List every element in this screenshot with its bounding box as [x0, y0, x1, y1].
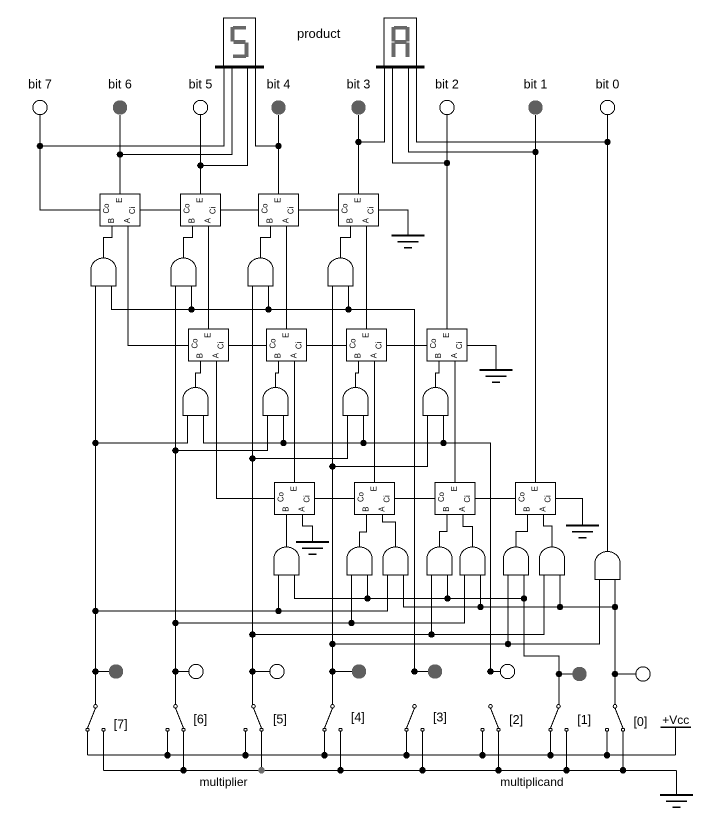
svg-text:multiplier: multiplier: [199, 775, 247, 789]
wire multiplier 5 stub: [253, 671, 270, 673]
ground GND3: [296, 541, 329, 543]
node ground rail junction x422.5: [419, 767, 426, 774]
svg-text:B: B: [195, 353, 204, 358]
svg-text:E: E: [362, 333, 371, 338]
wire G14 right input: [480, 575, 482, 607]
svg-text:bit 2: bit 2: [435, 77, 459, 91]
splitter bar for DIG1: [215, 65, 264, 68]
wire DIG2 bit0 leg: [417, 68, 608, 142]
wire ground rail to GND5: [676, 770, 678, 795]
svg-text:B: B: [361, 506, 370, 511]
svg-text:bit 5: bit 5: [189, 77, 213, 91]
wire MR6 bus to G14: [176, 575, 465, 623]
wire MR5 branch to G7: [253, 415, 348, 459]
splitter bar for DIG2: [376, 65, 425, 68]
node Vcc rail junction x607: [604, 752, 611, 759]
full adder U2 (row1): [181, 194, 221, 226]
node MC0-G15: [557, 604, 564, 611]
AND gate G14 (row3 A): [460, 547, 485, 575]
wire bit 7 stub: [39, 115, 41, 146]
svg-text:Ci: Ci: [366, 206, 375, 214]
AND gate G15 (row3 A): [540, 547, 565, 575]
wire DIG1 bit6 leg: [120, 68, 232, 154]
ground GND4: [566, 525, 599, 527]
switch [6]: [174, 705, 178, 709]
wire DIG1 bit5 leg: [201, 68, 248, 165]
wire FA2.Ci-FA3.Co: [221, 209, 259, 211]
input pin multiplier 4: [352, 664, 366, 678]
AND gate G4 (row1): [328, 258, 353, 286]
wire ground rail: [104, 769, 677, 771]
wire MR6 branch to G6: [176, 415, 268, 451]
wire FA1.Ci-FA2.Co: [140, 209, 181, 211]
wire G8 right input: [443, 415, 445, 443]
node MR4-G12: [505, 641, 512, 648]
node multiplicand 3 tap: [411, 668, 418, 675]
AND gate G6 (row2): [263, 388, 288, 416]
node Vcc rail junction x167.5: [164, 752, 171, 759]
wire bit3 to FA4 sum: [358, 142, 360, 194]
svg-text:[1]: [1]: [577, 713, 591, 727]
node MR4-bus: [329, 641, 336, 648]
output pin bit 3: [351, 100, 365, 114]
hex display DIG1 (high nibble, shows 5): [224, 18, 256, 67]
wire FA11.A from G14: [463, 515, 473, 548]
svg-text:Co: Co: [102, 203, 111, 214]
wire G16 right / MC0 to switch 0: [614, 580, 616, 705]
svg-text:B: B: [434, 353, 443, 358]
svg-text:A: A: [212, 352, 221, 358]
wire bit 5 stub: [200, 115, 202, 166]
wire FA3.Ci-FA4.Co: [299, 209, 339, 211]
svg-text:E: E: [531, 486, 540, 491]
wire G15 right input: [559, 575, 561, 607]
wire G13 right / net MC0 bus: [404, 575, 616, 607]
wire multiplicand 0 stub: [615, 673, 636, 675]
full adder U5 (row2): [189, 329, 229, 361]
node ground rail junction x340.5: [337, 767, 344, 774]
svg-text:E: E: [196, 198, 205, 203]
wire FA8.A from FA11 sum: [454, 361, 456, 483]
node bit2 junction: [444, 160, 451, 167]
output pin bit 6: [113, 100, 127, 114]
wire bit6 to FA1 sum: [119, 155, 121, 195]
wire multiplicand 1 stub: [559, 673, 572, 675]
svg-text:bit 3: bit 3: [347, 77, 371, 91]
wire bit7 to FA1 carry-out: [40, 146, 100, 210]
wire net MR5 column: [252, 286, 254, 705]
svg-text:bit 1: bit 1: [524, 77, 548, 91]
wire FA2.B from G2: [184, 226, 193, 258]
AND gate G11 (row3 B): [427, 547, 452, 575]
wire FA10.Ci-FA11.Co: [395, 498, 436, 500]
output pin bit 4: [271, 100, 285, 114]
wire bit2 to FA8 sum: [446, 163, 448, 329]
node Vcc rail junction x324.5: [321, 752, 328, 759]
svg-text:B: B: [522, 506, 531, 511]
node MC1-G11: [444, 595, 451, 602]
full adder U8 (row2): [427, 329, 467, 361]
svg-text:E: E: [204, 333, 213, 338]
wire FA4.Ci to ground: [379, 210, 409, 236]
svg-text:B: B: [281, 506, 290, 511]
wire DIG2 bit2 leg: [393, 68, 448, 163]
full adder U1 (row1): [100, 194, 140, 226]
wire net MR7 column: [95, 286, 97, 705]
svg-text:[6]: [6]: [193, 712, 207, 726]
node Vcc rail junction x406.5: [403, 752, 410, 759]
svg-text:[5]: [5]: [273, 712, 287, 726]
wire FA11.B from G11: [440, 515, 448, 548]
wire DIG2 bit1 leg: [409, 68, 536, 152]
full adder U4 (row1): [339, 194, 379, 226]
svg-text:Ci: Ci: [294, 341, 303, 349]
wire FA1.B from G1: [104, 226, 113, 258]
node multiplier 6 tap: [172, 668, 179, 675]
node MD3-G4: [345, 306, 352, 313]
wire FA7.Ci-FA8.Co: [387, 345, 428, 347]
input pin multiplier 5: [270, 664, 284, 678]
node MR7-G9: [275, 608, 282, 615]
wire FA3.B from G3: [261, 226, 271, 258]
svg-text:Ci: Ci: [463, 495, 472, 503]
node ground rail junction x261.5: [258, 767, 265, 774]
switch [2]: [489, 705, 493, 709]
wire bit 0 stub: [607, 115, 609, 142]
wire multiplier 7 stub: [96, 671, 109, 673]
wire FA5.B from G5: [196, 361, 201, 388]
svg-text:B: B: [353, 353, 362, 358]
node MD2-G6: [280, 440, 287, 447]
wire FA9.Ci-FA10.Co: [315, 498, 355, 500]
AND gate G9 (row3 B): [274, 547, 299, 575]
wire FA5.Ci-FA6.Co: [229, 345, 267, 347]
svg-text:[7]: [7]: [114, 717, 128, 731]
wire bit 6 stub: [119, 115, 121, 155]
svg-text:bit 0: bit 0: [596, 77, 620, 91]
svg-text:bit 6: bit 6: [108, 77, 132, 91]
svg-text:Ci: Ci: [128, 206, 137, 214]
wire G4 right input: [348, 286, 350, 310]
wire MR4 branch to G8: [333, 415, 428, 467]
wire G3 right input: [268, 286, 270, 310]
node MR6-G10: [348, 620, 355, 627]
wire multiplier 4 stub: [333, 671, 352, 673]
svg-text:Co: Co: [429, 338, 438, 349]
node MR5-G11: [428, 631, 435, 638]
wire bit 2 stub: [446, 115, 448, 163]
svg-text:A: A: [123, 217, 132, 223]
svg-text:[0]: [0]: [633, 715, 647, 729]
svg-text:B: B: [107, 218, 116, 223]
node bit5 junction: [197, 162, 204, 169]
wire FA10.A from G13: [383, 515, 396, 548]
wire G12 left input: [507, 575, 509, 644]
wire FA1.A from FA5.Co: [128, 226, 189, 346]
svg-text:A: A: [370, 352, 379, 358]
svg-text:E: E: [442, 333, 451, 338]
svg-text:B: B: [187, 218, 196, 223]
input pin multiplier 7: [109, 664, 123, 678]
svg-text:E: E: [370, 486, 379, 491]
svg-text:A: A: [362, 217, 371, 223]
svg-text:Ci: Ci: [543, 495, 552, 503]
output pin bit 0: [600, 100, 614, 114]
wire G1 right input / net MD3 bus: [112, 286, 415, 673]
wire G6 right input: [283, 415, 285, 443]
switch [4]: [331, 705, 335, 709]
node MR7-bus: [92, 608, 99, 615]
node bit1 junction: [532, 149, 539, 156]
node Vcc rail junction x482.5: [479, 752, 486, 759]
node ground rail junction x566.5: [563, 767, 570, 774]
node MR4-branch: [329, 463, 336, 470]
wire G10 left input: [351, 575, 353, 623]
svg-text:A: A: [290, 352, 299, 358]
svg-text:A: A: [204, 217, 213, 223]
node MC1-G12: [521, 595, 528, 602]
wire bit 4 stub: [278, 115, 280, 146]
wire bit1 to FA12 sum: [535, 152, 537, 483]
wire FA4.B from G4: [341, 226, 351, 258]
wire FA12.B from G12: [516, 515, 528, 548]
svg-text:product: product: [297, 26, 341, 41]
node ground rail junction x498.5: [495, 767, 502, 774]
switch [3]: [413, 705, 417, 709]
wire FA12.A from G15: [544, 515, 553, 548]
wire G10 right input: [367, 575, 369, 599]
node MD3-G3: [265, 306, 272, 313]
node bit3 junction: [355, 139, 362, 146]
wire MR5 bus to G15: [253, 575, 545, 635]
input pin multiplicand 0: [636, 667, 650, 681]
svg-text:+Vcc: +Vcc: [662, 713, 689, 727]
node multiplicand 0 tap: [612, 671, 619, 678]
svg-text:E: E: [282, 333, 291, 338]
wire multiplier 6 stub: [176, 671, 189, 673]
wire G5 right input / net MD2 bus: [204, 415, 491, 673]
node multiplicand 1 tap: [556, 671, 563, 678]
full adder U11 (row3): [435, 483, 475, 515]
svg-text:B: B: [265, 218, 274, 223]
node MC1-G10: [364, 595, 371, 602]
svg-text:Ci: Ci: [374, 341, 383, 349]
svg-text:Co: Co: [349, 338, 358, 349]
svg-text:Ci: Ci: [455, 341, 464, 349]
svg-text:A: A: [378, 506, 387, 512]
node MR5-bus: [249, 631, 256, 638]
wire FA9.B from G9: [286, 515, 288, 548]
wire net MR6 column: [175, 286, 177, 705]
node multiplier 4 tap: [329, 668, 336, 675]
output pin bit 1: [528, 100, 542, 114]
node bit7 junction: [37, 143, 44, 150]
full adder U3 (row1): [259, 194, 299, 226]
wire FA5.A from FA9.Co: [217, 361, 275, 499]
node MR5-branch: [249, 455, 256, 462]
svg-text:A: A: [450, 352, 459, 358]
input pin multiplicand 1: [572, 667, 586, 681]
node MR6-branch: [172, 447, 179, 454]
svg-text:A: A: [539, 506, 548, 512]
svg-text:Co: Co: [183, 203, 192, 214]
switch [5]: [252, 705, 256, 709]
full adder U10 (row3): [355, 483, 395, 515]
wire FA4.A from FA7 sum: [366, 226, 368, 329]
node ground rail junction x183.5: [180, 767, 187, 774]
svg-text:Co: Co: [191, 338, 200, 349]
full adder U6 (row2): [267, 329, 307, 361]
wire G2 right input: [191, 286, 193, 310]
node MD2-G8: [440, 440, 447, 447]
ground GND1: [392, 235, 425, 237]
node MD2-G7: [360, 440, 367, 447]
svg-text:E: E: [274, 198, 283, 203]
wire FA6.Ci-FA7.Co: [307, 345, 347, 347]
wire MR4 bus to G16: [333, 580, 600, 645]
wire bit 3 stub: [358, 115, 360, 142]
node Vcc rail junction x245.5: [242, 752, 249, 759]
svg-text:Ci: Ci: [216, 341, 225, 349]
wire MR7 branch to G5: [96, 415, 188, 443]
wire G7 right input: [363, 415, 365, 443]
svg-text:[4]: [4]: [351, 711, 365, 725]
AND gate G16 (product bit0): [595, 552, 620, 580]
ground GND2: [480, 369, 513, 371]
node bit6 junction: [117, 151, 124, 158]
node MC0-G14: [477, 604, 484, 611]
svg-text:B: B: [442, 506, 451, 511]
wire FA11.Ci-FA12.Co: [475, 498, 516, 500]
svg-text:Co: Co: [437, 491, 446, 502]
wire multiplicand 3 stub: [415, 671, 428, 673]
node MR7-branch: [92, 440, 99, 447]
svg-text:Co: Co: [261, 203, 270, 214]
svg-text:multiplicand: multiplicand: [500, 775, 563, 789]
wire DIG1 bit7 leg: [40, 68, 224, 146]
wire FA8.Ci to ground: [467, 346, 496, 371]
node Vcc rail junction x550.5: [547, 752, 554, 759]
svg-text:[2]: [2]: [509, 713, 523, 727]
AND gate G1 (row1): [91, 258, 116, 286]
switch [0]: [613, 705, 617, 709]
input pin multiplicand 2: [500, 664, 514, 678]
wire G11 right input: [447, 575, 449, 599]
wire G9 left input: [278, 575, 280, 611]
output pin bit 5: [193, 100, 207, 114]
svg-text:Ci: Ci: [208, 206, 217, 214]
wire bit4 to FA3 sum: [278, 146, 280, 194]
node bit4 junction: [275, 143, 282, 150]
svg-text:bit 4: bit 4: [267, 77, 291, 91]
svg-text:A: A: [458, 506, 467, 512]
AND gate G8 (row2): [423, 388, 448, 416]
wire net MR4 column: [332, 286, 334, 705]
svg-text:A: A: [298, 506, 307, 512]
node bit0 junction: [604, 139, 611, 146]
wire DIG2 bit3 leg: [359, 68, 385, 142]
full adder U12 (row3): [516, 483, 556, 515]
wire FA10.B from G10: [360, 515, 367, 548]
AND gate G13 (row3 A): [383, 547, 408, 575]
svg-text:bit 7: bit 7: [28, 77, 52, 91]
AND gate G5 (row2): [183, 388, 208, 416]
wire FA3.A from FA6 sum: [286, 226, 288, 329]
AND gate G12 (row3 B): [504, 547, 529, 575]
svg-text:E: E: [115, 198, 124, 203]
svg-text:Ci: Ci: [302, 495, 311, 503]
ground GND5: [660, 794, 693, 796]
wire FA12.Ci to ground: [556, 499, 583, 526]
wire FA7.A from FA10 sum: [374, 361, 376, 483]
wire Vcc rail: [88, 754, 676, 756]
AND gate G10 (row3 B): [347, 547, 372, 575]
wire FA9.A to ground: [303, 515, 313, 543]
wire G11 left input: [431, 575, 433, 635]
node multiplicand 2 tap: [487, 668, 494, 675]
node MR6-bus: [172, 620, 179, 627]
wire bit 1 stub: [535, 115, 537, 152]
svg-text:Co: Co: [518, 491, 527, 502]
AND gate G7 (row2): [343, 388, 368, 416]
wire MR7 bus to G13: [96, 575, 388, 611]
svg-text:B: B: [345, 218, 354, 223]
AND gate G3 (row1): [248, 258, 273, 286]
svg-text:Co: Co: [341, 203, 350, 214]
svg-text:Ci: Ci: [382, 495, 391, 503]
wire G12 right input / MC1 to switch 1: [524, 575, 559, 705]
svg-text:Co: Co: [277, 491, 286, 502]
wire bit0 to AND gate G16: [607, 142, 609, 552]
full adder U9 (row3): [275, 483, 315, 515]
wire FA6.B from G6: [276, 361, 279, 388]
switch [7]: [94, 705, 98, 709]
svg-text:Co: Co: [269, 338, 278, 349]
wire FA8.B from G8: [436, 361, 440, 388]
wire multiplicand 2 stub: [491, 671, 501, 673]
output pin bit 2: [440, 100, 454, 114]
input pin multiplier 6: [189, 664, 203, 678]
wire FA2.A from FA5 sum: [208, 226, 210, 329]
svg-text:[3]: [3]: [433, 711, 447, 725]
output pin bit 7: [33, 100, 47, 114]
node MD3-G2: [188, 306, 195, 313]
wire G9 right / net MC1 bus: [295, 575, 525, 599]
node multiplier 5 tap: [249, 668, 256, 675]
svg-text:B: B: [273, 353, 282, 358]
wire FA7.B from G7: [356, 361, 359, 388]
wire FA6.A from FA9 sum: [294, 361, 296, 483]
wire DIG1 bit4 leg: [256, 68, 279, 146]
svg-text:Ci: Ci: [286, 206, 295, 214]
full adder U7 (row2): [347, 329, 387, 361]
svg-text:Co: Co: [357, 491, 366, 502]
node multiplier 7 tap: [92, 668, 99, 675]
AND gate G2 (row1): [171, 258, 196, 286]
switch [1]: [557, 705, 561, 709]
wire bit5 to FA2 sum: [200, 166, 202, 195]
svg-text:E: E: [290, 486, 299, 491]
svg-text:E: E: [450, 486, 459, 491]
hex display DIG2 (low nibble, shows A): [384, 18, 417, 67]
svg-text:A: A: [282, 217, 291, 223]
input pin multiplicand 3: [428, 664, 442, 678]
node MC0-G16: [612, 604, 619, 611]
svg-text:E: E: [354, 198, 363, 203]
node ground rail junction x623: [620, 767, 627, 774]
